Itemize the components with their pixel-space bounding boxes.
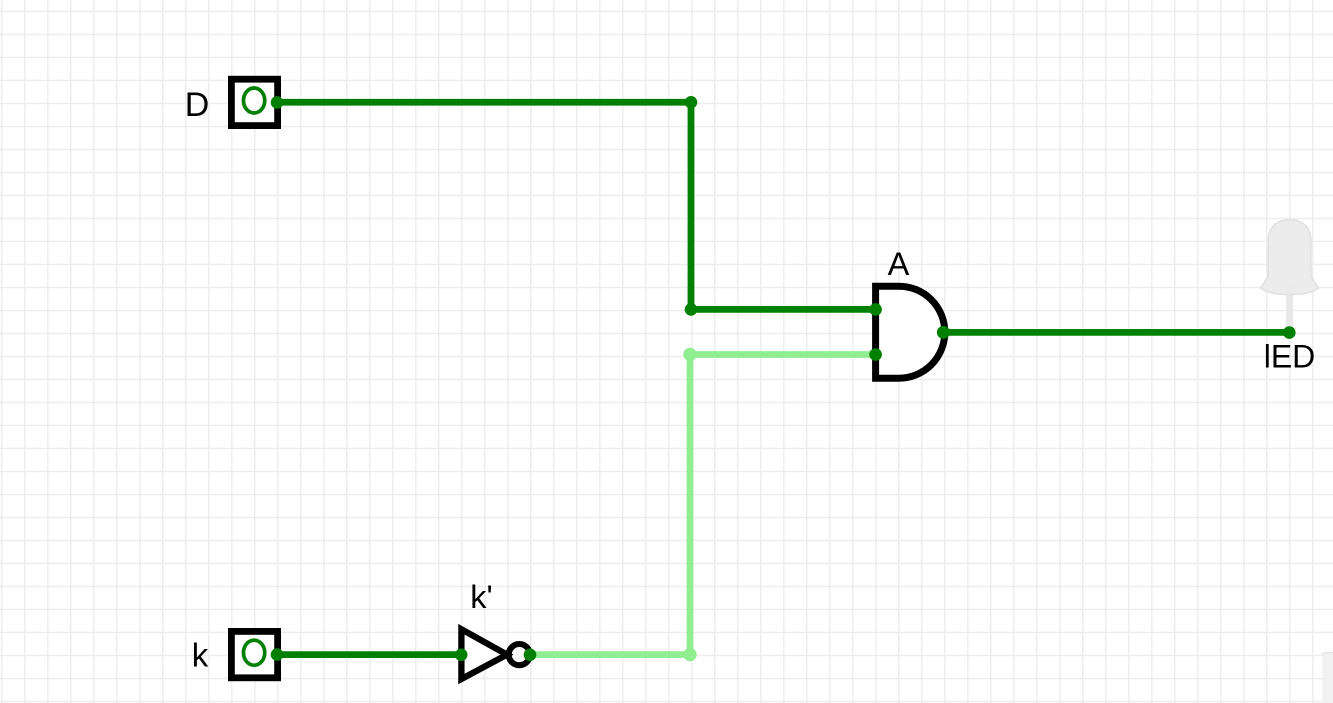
svg-text:lED: lED xyxy=(1264,338,1316,374)
svg-text:k: k xyxy=(192,636,209,673)
svg-text:D: D xyxy=(185,86,210,124)
svg-text:A: A xyxy=(888,246,910,282)
svg-text:k': k' xyxy=(470,579,492,615)
